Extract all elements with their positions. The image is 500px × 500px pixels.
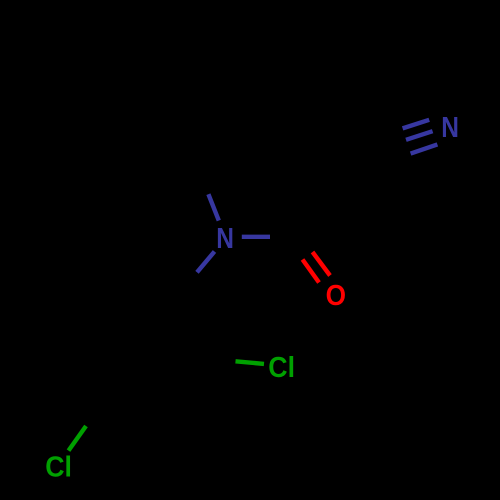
svg-text:Cl: Cl [268, 352, 295, 384]
svg-text:N: N [441, 112, 459, 144]
svg-text:N: N [216, 223, 234, 255]
svg-text:O: O [326, 280, 346, 312]
svg-text:Cl: Cl [45, 451, 72, 483]
